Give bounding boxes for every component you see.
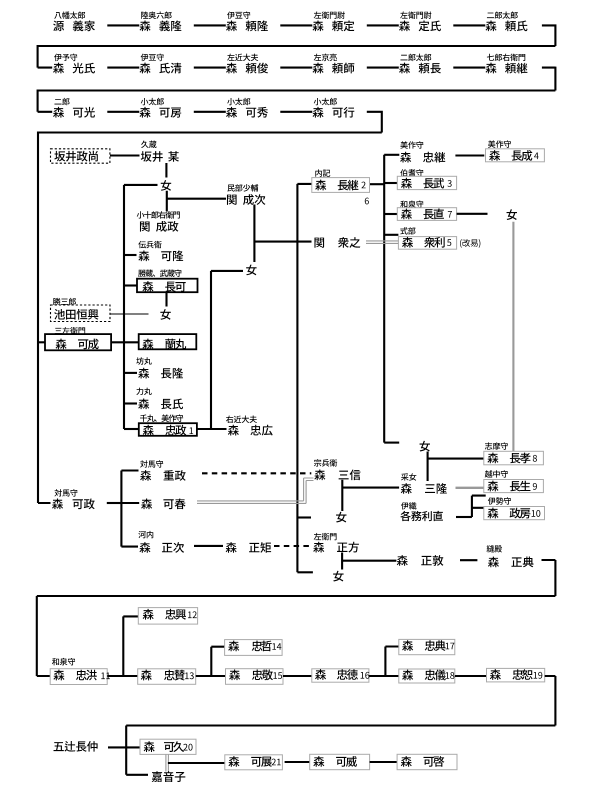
person 森可春 name	[141, 498, 185, 509]
wire B bottom corner to 女7	[384, 442, 399, 444]
person 森長孝 box	[484, 451, 544, 465]
person 池田恒興 box	[51, 305, 111, 322]
wire wrap 忠恕 to bottom	[126, 676, 555, 775]
person 森長継 box	[312, 178, 370, 193]
person 森正方 name	[313, 542, 359, 553]
person 森光氏 name	[53, 63, 95, 74]
wire tick 重政	[121, 469, 138, 471]
person 森忠洪 name	[53, 670, 109, 681]
wire spine2 corner to 女6	[297, 571, 313, 573]
person 森忠恕 name	[490, 669, 542, 680]
person 森頼師 title	[314, 54, 337, 61]
person 森衆利 name	[402, 237, 451, 248]
wire left spine tick to Yoshinari box	[38, 341, 45, 343]
person 森可展 box	[225, 755, 283, 770]
note 6 (六男)	[365, 198, 369, 205]
wire 森光氏 to next	[107, 67, 139, 69]
person 森長直 title	[400, 201, 423, 208]
wire 忠儀 to 忠恕	[455, 675, 487, 677]
wire 五辻長仲 to 可久	[108, 746, 140, 748]
wire 森可秀 to next	[280, 111, 312, 113]
person 森忠恕 box	[487, 668, 545, 682]
person 森可光 name	[53, 107, 95, 118]
wire 森定氏 to next	[453, 24, 485, 26]
person 関成次 name	[227, 194, 265, 205]
wire tick 衆利	[384, 234, 398, 236]
person 森正次 title	[138, 531, 153, 538]
wire spine2 (長継)	[297, 184, 311, 572]
wire 森可房 to next	[194, 111, 226, 113]
person 各務利直 name	[400, 511, 443, 521]
wire tick 長可	[124, 284, 137, 286]
person 森長生 box	[484, 480, 544, 493]
person 関成政 title	[137, 211, 180, 218]
person 森可威 name	[313, 756, 357, 767]
wire 忠賛 to 忠敬	[196, 675, 226, 677]
person 森定氏 title	[400, 11, 431, 18]
person 森三信 title	[314, 459, 337, 466]
wire 森氏清 to next	[194, 67, 226, 69]
person 森頼継 title	[487, 54, 525, 61]
person 森忠興 box	[138, 608, 197, 625]
note (改易)	[460, 239, 480, 248]
person 森三信 name	[314, 469, 360, 480]
wire wrap row1 to row2	[38, 24, 556, 67]
wire 関成次 down to 女4	[253, 205, 255, 263]
person 池田恒興 title	[53, 298, 76, 305]
person 関衆之 name	[314, 237, 360, 248]
person 女7	[420, 441, 430, 452]
person 森定氏 name	[399, 20, 441, 31]
wire 長可 to 女3	[165, 292, 167, 306]
person 森長隆 name	[138, 368, 183, 379]
person 森可房 title	[141, 98, 164, 105]
person 森長継 title	[315, 169, 330, 176]
person 森忠哲 name	[228, 641, 281, 652]
person 森正典 title	[487, 545, 502, 552]
person 女 (長直娘)	[507, 209, 517, 220]
wire 可春=三信 gray hook B	[197, 481, 314, 504]
wire vertical B	[383, 155, 385, 443]
person 女3 (長可娘)	[160, 309, 170, 320]
wire 可春=三信 gray hook A	[197, 478, 314, 501]
person 森長可 title	[138, 269, 181, 276]
person 森長武 box	[397, 176, 456, 189]
person 森長孝 title	[485, 442, 508, 449]
wire 正方 down	[341, 553, 343, 570]
person 坂井某 name	[141, 151, 179, 162]
wire 長継 box to vertical B	[370, 183, 385, 185]
wire 坂井政尚 to 坂井某	[110, 154, 140, 156]
wire 源義家 to next	[107, 24, 139, 26]
wire 女 to 関成次	[167, 191, 226, 212]
wire v to 忠哲	[211, 647, 224, 676]
person 森忠徳 box	[312, 669, 369, 682]
person 森正矩 name	[226, 542, 271, 553]
wire 女4 to 忠広 marriage	[211, 271, 243, 429]
person 森可久 box	[140, 739, 196, 754]
person 女4 (成次娘)	[246, 265, 256, 276]
wire tick 長隆	[124, 372, 137, 374]
wire 正方 to 正敦	[342, 560, 396, 562]
wire 各務利直 to 政房	[456, 516, 472, 518]
wire 森頼師 to next	[367, 67, 399, 69]
wire wrap row2 to row3	[38, 67, 556, 112]
wire 森義隆 to next	[194, 24, 226, 26]
person 森正次 name	[139, 542, 184, 553]
person 女5	[336, 512, 346, 523]
person 森衆利 box	[398, 237, 456, 250]
person 森政房 box	[484, 507, 545, 520]
person 森忠政 number 1	[189, 427, 193, 434]
person 森正典 name	[488, 557, 533, 568]
person 森長孝 name	[487, 453, 536, 464]
person 森可成 name	[56, 339, 99, 350]
wire 忠政 to 忠広	[197, 428, 227, 430]
person 森頼長 name	[399, 63, 441, 74]
wire 正矩--正方 (dashed)	[274, 545, 311, 547]
person 坂井政尚 box	[51, 149, 110, 163]
person 森可政 title	[54, 489, 77, 496]
person 坂井政尚	[54, 151, 97, 162]
person 森頼師 name	[313, 63, 355, 74]
person 森頼隆 name	[226, 20, 268, 31]
person 森可政 name	[52, 498, 95, 509]
person 森頼氏 title	[487, 11, 518, 18]
person 森可隆 title	[138, 241, 161, 248]
person 森忠徳 name	[315, 669, 369, 680]
person 森長可 name	[142, 281, 185, 292]
person 森長直 name	[401, 209, 452, 220]
wire children spine	[123, 185, 125, 429]
person 森可成 box	[45, 334, 111, 350]
wire v to 忠興	[123, 616, 138, 676]
person 森可行 title	[314, 98, 337, 105]
person 森頼長 title	[400, 54, 431, 61]
person 森忠継 title	[400, 141, 423, 148]
person 森頼俊 title	[227, 54, 258, 61]
person 森政房 title	[488, 497, 511, 504]
person 森可房 name	[140, 107, 182, 118]
wire 重政--三信 (dashed)	[202, 472, 311, 474]
wire 忠洪 to 忠賛	[107, 675, 138, 677]
person 森可秀 title	[227, 98, 250, 105]
person 森忠賛 box	[138, 669, 196, 685]
person 森蘭丸 box	[139, 334, 197, 349]
person 森長隆 title	[136, 357, 151, 364]
wire 正敦 to 正典	[460, 559, 477, 561]
person 森忠賛 name	[141, 670, 194, 681]
wire v to 忠典	[385, 647, 398, 677]
person 森長成 box	[486, 149, 545, 162]
person 森頼定 title	[314, 11, 345, 18]
wire 池田恒興 to 女3	[110, 313, 149, 315]
person 森忠敬 box	[226, 669, 284, 685]
person 森可威 box	[310, 754, 370, 769]
wire 長生 to 政房	[472, 496, 486, 517]
person 森忠典 box	[399, 639, 455, 654]
person 森頼定 name	[313, 20, 355, 31]
person 森可行 name	[313, 107, 355, 118]
person 森義隆 name	[140, 20, 182, 31]
person 各務利直 title	[401, 502, 417, 509]
person 森長氏 title	[136, 388, 151, 395]
person 関成政 name	[140, 221, 178, 232]
person 森忠儀 box	[399, 669, 455, 683]
person 森衆利 title	[400, 227, 415, 234]
person 池田恒興	[54, 309, 98, 320]
person 森光氏 title	[54, 54, 77, 61]
person 森忠継 name	[400, 152, 445, 163]
wire 森頼定 to next	[367, 24, 399, 26]
wire tick 長氏	[124, 402, 137, 404]
wire 女7 to 三隆	[427, 452, 429, 482]
person 森三隆 title	[401, 473, 416, 480]
person 森長生 title	[485, 470, 508, 477]
wire 三信 down	[341, 480, 343, 511]
person 森長継 name	[315, 180, 365, 191]
person 関成次 title	[227, 184, 258, 191]
wire tick 長直	[384, 213, 397, 215]
person 森頼俊 name	[226, 63, 268, 74]
person 森正方 title	[314, 533, 337, 540]
person 森可久 name	[144, 741, 193, 752]
person 森長武 title	[400, 169, 423, 176]
person 森長可 box	[137, 279, 198, 293]
wire 可成 to spine	[111, 341, 139, 343]
person 女 (坂井某娘)	[161, 180, 171, 191]
person 坂井某 title	[141, 141, 156, 148]
person 森可展 name	[228, 756, 280, 767]
wire 森頼俊 to next	[280, 67, 312, 69]
wire 長直 to 女(嫁)	[457, 213, 488, 215]
person 森氏清 name	[140, 63, 182, 74]
person 森可成 title	[55, 327, 85, 334]
person 女6	[333, 571, 343, 582]
person 森忠政 title	[140, 414, 183, 421]
wire 可展 to 可威	[285, 761, 310, 763]
wire 衆之=衆利 (adoption gray)	[366, 241, 398, 244]
person 森氏清 title	[141, 54, 164, 61]
wire 女7 to 長孝 box	[428, 458, 484, 460]
person 森忠広 name	[228, 425, 273, 436]
person 森可隆 name	[138, 250, 183, 261]
wire 森可光 to next	[107, 111, 139, 113]
wire tick 可春	[121, 502, 139, 504]
person 森忠広 title	[226, 416, 257, 423]
wire 可久=嘉音子 (gray)	[166, 754, 169, 771]
wire 坂井某 to 女	[165, 163, 167, 178]
person 森長成 name	[489, 150, 538, 161]
person 森重政 title	[140, 460, 163, 467]
wire 嘉音子 to 可展	[168, 762, 225, 764]
wire corner 正次	[121, 546, 138, 548]
person 森忠儀 name	[402, 670, 454, 681]
person 森忠政 box	[139, 423, 197, 436]
person 源義家 name	[53, 20, 95, 31]
person 森三隆 name	[401, 483, 447, 494]
person 森長武 name	[401, 178, 452, 189]
wire 女 to 長孝 (gray)	[512, 222, 514, 451]
person 森頼隆 title	[227, 11, 250, 18]
person 森忠敬 name	[229, 669, 282, 680]
wire 可政 to branch	[107, 502, 122, 504]
wire 森頼隆 to next	[280, 24, 312, 26]
person 森政房 name	[487, 508, 540, 519]
wire 関成次 to 関衆之	[254, 241, 311, 243]
person 森可光 title	[54, 98, 69, 105]
wire tick 忠継	[384, 154, 399, 156]
person 森正敦 name	[397, 555, 444, 566]
wire 森頼長 to next	[453, 67, 485, 69]
person 森忠洪 title	[52, 658, 75, 665]
person 森重政 name	[140, 470, 185, 481]
person 森頼氏 name	[486, 20, 528, 31]
wire 忠継 to 長成	[455, 154, 484, 156]
person 森長生 name	[487, 481, 536, 492]
wire 三信 to 三隆	[342, 487, 399, 489]
person 森忠興 name	[143, 609, 197, 620]
person 森長氏 name	[138, 398, 183, 409]
wire tick 長武	[384, 182, 397, 184]
person 森忠典 name	[402, 640, 454, 651]
person 森忠洪 box	[50, 669, 107, 685]
person 森可啓 box	[397, 754, 457, 769]
wire 正次 to 正矩	[194, 545, 223, 547]
person 森長成 title	[488, 140, 511, 147]
wire 忠徳 to 忠儀	[369, 675, 399, 677]
person 森頼継 name	[486, 63, 528, 74]
wire 可政 branch vertical	[120, 471, 122, 547]
wire 可威 to 可啓	[370, 761, 398, 763]
wire 忠敬 to 忠徳	[283, 675, 312, 677]
wire wrap row3 to left spine	[38, 111, 382, 503]
wire 三隆=長生 (gray)	[456, 487, 486, 489]
person 森可秀 name	[226, 107, 268, 118]
person 五辻長仲 name	[54, 741, 98, 752]
person 森忠政 name	[143, 425, 186, 436]
person 森蘭丸 name	[142, 339, 186, 350]
wire spine to 忠政 box	[124, 428, 139, 430]
person 森可啓 name	[401, 756, 445, 767]
wire tick 可隆	[124, 254, 137, 256]
wire 女 to children spine	[124, 184, 158, 186]
wire wrap 正典 to 忠洪	[37, 560, 556, 676]
wire tick spine2 to 女5	[297, 516, 311, 518]
person 森義隆 title	[141, 11, 172, 18]
person 源義家 title	[54, 11, 85, 18]
person 森長直 box	[397, 208, 456, 221]
person 森忠哲 box	[225, 640, 283, 656]
person 嘉音子 name	[152, 771, 186, 782]
